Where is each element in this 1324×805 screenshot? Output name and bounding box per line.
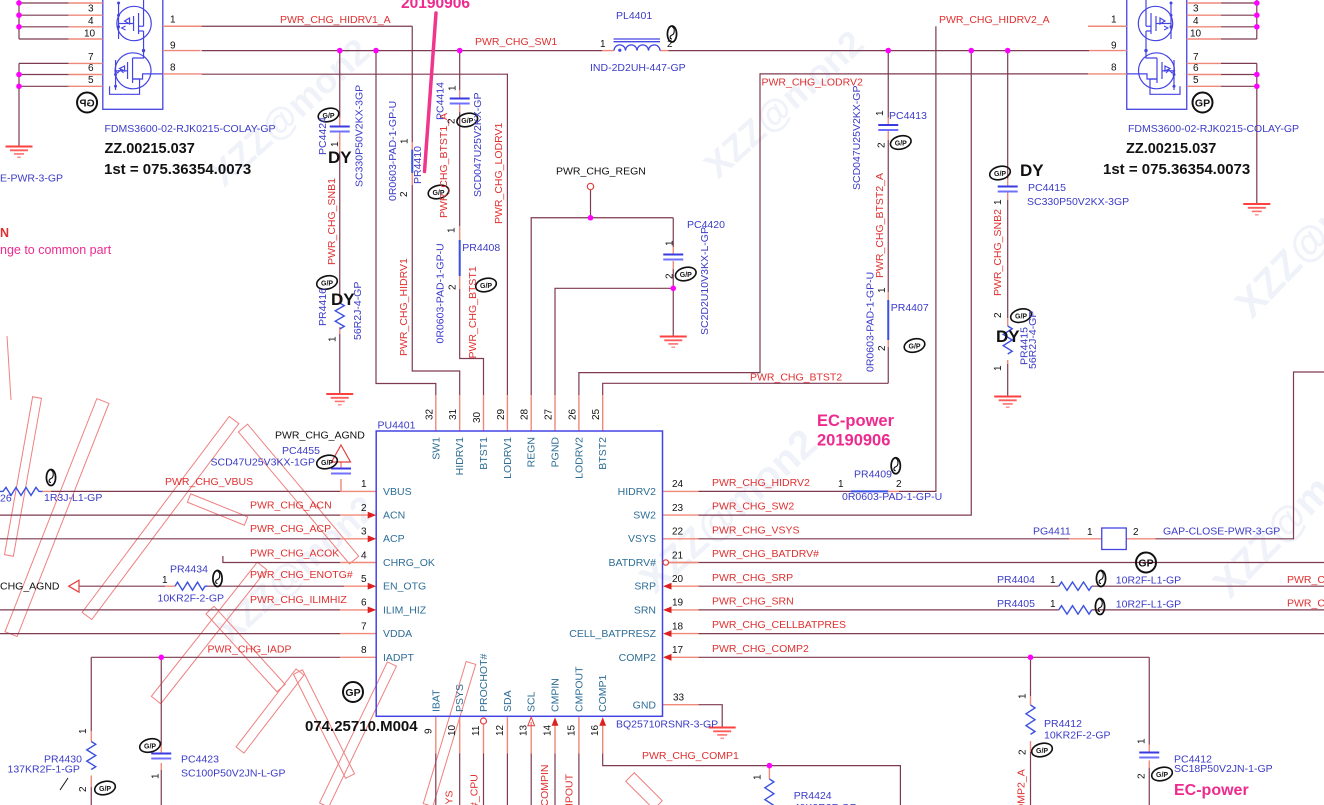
svg-text:1: 1 [447,227,458,233]
wire PC4455 stem [340,462,342,463]
svg-text:IBAT: IBAT [430,689,442,712]
wire net PWR_CHG_ILIMHIZ [0,609,340,611]
capacitor PC4414 [450,99,470,104]
svg-text:5: 5 [88,75,94,86]
wire BTST1 chain upper [459,51,461,90]
stub 1R3J resistor right pad [43,490,52,492]
svg-text:DY: DY [996,327,1020,346]
svg-text:ZZ.00215.037: ZZ.00215.037 [1126,141,1216,157]
svg-text:PWR_CHG_ILIMHIZ: PWR_CHG_ILIMHIZ [250,594,347,606]
svg-text:2: 2 [399,191,410,197]
svg-text:PWR_CHG_BTST1_A: PWR_CHG_BTST1_A [438,113,450,218]
wire right FET row pin7 [1221,62,1257,64]
svg-text:PWR_CHG_REGN: PWR_CHG_REGN [556,166,646,178]
svg-text:26: 26 [0,493,12,505]
svg-text:PC4413: PC4413 [889,110,927,122]
stub PC4415 pads [1007,179,1009,187]
capacitor PC4455 [331,469,351,474]
svg-text:VSYS: VSYS [628,533,656,545]
wire net PWR_CHG_SRP [699,585,1059,587]
svg-text:10R2F-L1-GP: 10R2F-L1-GP [1116,599,1181,611]
svg-text:GAP-CLOSE-PWR-3-GP: GAP-CLOSE-PWR-3-GP [1163,526,1280,538]
svg-text:SC330P50V2KX-3GP: SC330P50V2KX-3GP [1027,196,1129,208]
svg-text:PR4434: PR4434 [170,564,208,576]
resistor PR4409 0-ohm horizontal [851,490,889,492]
svg-text:30: 30 [472,411,483,423]
stub PR4407 pads [887,292,889,300]
svg-text:PR4416: PR4416 [317,288,329,326]
svg-text:PWR_CHG_SW1: PWR_CHG_SW1 [475,36,557,48]
svg-text:33: 33 [673,693,685,704]
stub IC right pins [663,490,699,492]
svg-text:SC100P50V2JN-L-GP: SC100P50V2JN-L-GP [181,768,285,780]
resistor PR4407 0-ohm [887,300,889,340]
wire net PWR_CHG_HIDRV1 below PR4410 to IC pin31 [412,185,459,395]
svg-text:PWR_CHG_VSYS: PWR_CHG_VSYS [712,524,800,536]
svg-text:PWR_CHG_VBUS: PWR_CHG_VBUS [165,476,253,488]
wire IC bottom pin11 [483,754,485,805]
svg-text:2: 2 [448,284,459,290]
IC bottom pin names vertical [430,654,609,713]
svg-text:CMPIN: CMPIN [550,678,562,712]
svg-text:PWR_CHG_LODRV2: PWR_CHG_LODRV2 [762,77,863,89]
svg-text:1: 1 [665,240,676,246]
wire right FET gate bus [1256,0,1258,39]
resistor PR4410 0-ohm [411,150,413,174]
red pin stubs [43,51,1156,787]
svg-text:3: 3 [361,527,367,538]
svg-text:PWR_CHG_IADP: PWR_CHG_IADP [208,644,292,656]
resistor PR4426 partial at left edge [0,487,43,495]
stub PG4411 pads [1069,538,1102,540]
svg-text:PWR_CHG_SRN: PWR_CHG_SRN [1287,598,1324,610]
svg-text:1R3J-L1-GP: 1R3J-L1-GP [44,492,102,504]
wire net PWR_CHG_IADP [91,656,340,658]
svg-text:29: 29 [496,408,507,420]
svg-text:20190906: 20190906 [401,0,470,12]
svg-text:16: 16 [590,724,601,736]
stub PR4410 pads [411,142,413,150]
svg-text:CELL_BATPRESZ: CELL_BATPRESZ [569,628,656,640]
svg-text:10KR2F-2-GP: 10KR2F-2-GP [158,593,225,605]
wire left FET row pin2 [19,2,69,4]
svg-text:IND-2D2UH-447-GP: IND-2D2UH-447-GP [590,62,686,74]
wire snubber2 PWR_CHG_SNB2 [1007,51,1009,179]
svg-text:1: 1 [448,85,459,91]
svg-text:3: 3 [88,4,94,15]
svg-text:1: 1 [170,15,176,26]
wire net PWR_CHG_BATDRV# [669,562,1324,564]
svg-text:PWR_CHG_PROCHOT#_CPU: PWR_CHG_PROCHOT#_CPU [469,774,481,805]
wire PR4412 branch [1030,657,1032,696]
svg-text:8: 8 [170,63,176,74]
svg-text:1st = 075.36354.0073: 1st = 075.36354.0073 [1103,161,1250,178]
capacitor PC4415 [998,187,1018,192]
svg-text:FDMS3600-02-RJK0215-COLAY-GP: FDMS3600-02-RJK0215-COLAY-GP [1128,123,1299,135]
svg-text:0R0603-PAD-1-GP-U: 0R0603-PAD-1-GP-U [435,243,447,343]
svg-text:PWR_CHG_HIDRV1: PWR_CHG_HIDRV1 [398,258,410,356]
svg-text:14: 14 [543,724,554,736]
svg-text:PWR_CHG_SNB2: PWR_CHG_SNB2 [992,209,1004,296]
svg-text:4: 4 [361,550,367,561]
svg-text:8: 8 [1111,63,1117,74]
svg-text:PWR_CHG_SRP: PWR_CHG_SRP [712,572,793,584]
svg-text:20: 20 [672,574,684,585]
wire net PWR_CHG_ENOTG# [79,585,165,587]
wire left FET row pin3 [19,14,69,16]
wire right FET row pin10 [1221,38,1257,40]
svg-text:4: 4 [1193,16,1199,27]
svg-text:PC4415: PC4415 [1028,182,1066,194]
ground left FET [6,147,33,158]
wire right FET row pin3 [1221,14,1257,16]
wire right FET source bus to ground [1256,63,1258,203]
wire PC4412 branch [1148,657,1150,744]
svg-text:7: 7 [1193,52,1199,63]
svg-text:27: 27 [544,408,555,420]
wire GND pin33 [699,705,723,727]
svg-text:PWR_CHG_HIDRV2_A: PWR_CHG_HIDRV2_A [939,14,1050,26]
svg-text:2: 2 [1137,773,1148,779]
svg-text:1: 1 [1018,693,1029,699]
svg-text:56R2J-4-GP: 56R2J-4-GP [352,282,364,340]
wire REGN terminal stem [590,190,592,218]
capacitor PC4420 [663,255,683,260]
arrow IC pin5 [368,583,377,590]
wire left FET row pin4 [19,26,69,28]
svg-text:BTST2: BTST2 [597,437,609,470]
svg-text:SCD047U25V2KX-GP: SCD047U25V2KX-GP [472,93,484,197]
svg-text:ZZ.00215.037: ZZ.00215.037 [105,141,195,157]
wire snubber1 PWR_CHG_SNB1 [339,51,341,118]
svg-text:PWR_CHG_ACN: PWR_CHG_ACN [250,500,332,512]
wire net PWR_CHG_CELLBATPRES [699,633,1324,635]
slash mark near PR4430 [60,778,68,790]
svg-text:6: 6 [1193,63,1199,74]
capacitor PC4412 [1139,753,1159,758]
svg-text:1: 1 [993,199,1004,205]
wire left FET row pin10 [19,38,69,40]
svg-text:10: 10 [84,29,96,40]
wire net PWR_CHG_REGN vertical to IC pin28 [531,218,673,395]
arrow IC pin13 hollow [528,717,535,726]
svg-text:ILIM_HIZ: ILIM_HIZ [383,605,427,617]
svg-text:PR4408: PR4408 [462,242,500,254]
svg-text:2: 2 [78,786,89,792]
svg-text:0R0603-PAD-1-GP-U: 0R0603-PAD-1-GP-U [842,491,942,503]
wire right FET row pin5 [1221,85,1257,87]
wire net PWR_CHG_SRN [699,609,1059,611]
watermark background texts [202,22,1324,651]
svg-text:10R2F-L1-GP: 10R2F-L1-GP [1116,575,1181,587]
svg-text:VBUS: VBUS [383,486,412,498]
svg-text:PR4404: PR4404 [997,574,1035,586]
svg-text:ACN: ACN [383,510,405,522]
wire PGND pin27 to ground node [555,288,673,395]
stub PC4420 pads [672,247,674,254]
circle IC pin11 [481,718,487,724]
svg-text:HIDRV1: HIDRV1 [454,437,466,475]
resistor PR4430 [87,742,96,770]
arrow IC pin3 [368,535,377,542]
resistor PR4434 [175,582,208,590]
capacitor PC4424 [330,127,350,132]
stub inductor PL4401 pads [602,50,613,52]
wire IC bottom pin14 [554,754,556,805]
svg-text:SCD47U25V3KX-1GP: SCD47U25V3KX-1GP [211,457,315,469]
svg-text:DY: DY [328,148,352,167]
svg-text:20190906: 20190906 [817,432,890,450]
svg-text:2: 2 [877,345,888,351]
wire left FET row pin7 [19,62,69,64]
svg-text:2: 2 [896,479,902,490]
svg-text:23: 23 [672,503,684,514]
svg-text:BQ25710RSNR-3-GP: BQ25710RSNR-3-GP [616,719,718,731]
wire PR4430 branch [90,657,92,731]
stub PC4423 pads [160,745,162,753]
svg-text:25: 25 [591,408,602,420]
wire net PWR_CHG_LODRV1 [202,74,508,395]
arrow IC pin14 [552,717,559,726]
bold black texts [104,141,1250,735]
rotated red vertical net labels [326,113,1028,805]
wire net PWR_CHG_HIDRV1_A horizontal [202,25,413,27]
wire HIDRV2 pin24 to PR4409 [699,490,851,492]
svg-text:18: 18 [672,621,684,632]
wire PR4424 branch [768,766,770,767]
svg-text:SCL: SCL [526,691,538,712]
terminal CHG_AGND left arrow [69,580,79,592]
svg-text:1: 1 [1050,575,1056,586]
svg-text:1: 1 [1050,599,1056,610]
ground PC4420 [660,337,687,348]
svg-text:32: 32 [424,408,435,420]
svg-text:N: N [0,226,9,240]
wire net PWR_CHG_COMP2 [699,656,1150,658]
svg-text:PR4405: PR4405 [997,598,1035,610]
svg-text:PG4411: PG4411 [1033,526,1071,538]
wire net PWR_CHG_BTST2 [603,383,889,395]
svg-text:12: 12 [495,724,506,736]
wire net PWR_CHG_HIDRV2_A vertical [899,26,936,491]
svg-text:EC-power: EC-power [817,412,895,430]
wire PC4420 chain [672,218,674,247]
wire IC bottom pin13 [530,754,532,805]
arrow IC pin18 [663,630,672,637]
svg-text:PWR_CHG_ACOK: PWR_CHG_ACOK [250,548,339,560]
arrow IC pin6 [368,607,377,614]
svg-text:PL4401: PL4401 [616,10,652,22]
arrow IC pin20 [663,583,672,590]
svg-text:1: 1 [1111,15,1117,26]
svg-text:SW2: SW2 [633,510,656,522]
svg-text:PWR_CHG_BTST2: PWR_CHG_BTST2 [750,372,842,384]
svg-text:1: 1 [151,773,162,779]
black labels [0,166,646,593]
svg-text:E-PWR-3-GP: E-PWR-3-GP [0,173,63,185]
svg-text:PWR_CHG_COMP1: PWR_CHG_COMP1 [642,750,739,762]
svg-text:19: 19 [672,598,684,609]
svg-text:9: 9 [423,728,434,734]
resistor PR4408 0-ohm [459,240,461,276]
svg-text:GND: GND [633,700,657,712]
resistor PR4405 [1059,606,1092,614]
svg-text:LODRV1: LODRV1 [502,437,514,479]
rotated small pin digit labels [78,85,1148,792]
capacitor PC4413 [878,125,898,130]
GP marker IC [343,682,363,702]
stub PC4424 pads [339,118,341,127]
svg-text:21: 21 [672,550,684,561]
wire left FET row pin6 [19,74,69,76]
stub PR4434 pads [165,585,175,587]
svg-text:1: 1 [1137,738,1148,744]
svg-text:CMPOUT: CMPOUT [573,666,585,712]
svg-text:2: 2 [1133,527,1139,538]
svg-text:PWR_CHG_HIDRV1_A: PWR_CHG_HIDRV1_A [280,14,391,26]
wire net PWR_CHG_SW2 from inductor to right FET pin9 [669,50,1090,52]
ground right FET [1243,204,1270,215]
stub PC4413 pads [887,118,889,125]
wire right FET row pin2 [1221,2,1257,4]
svg-text:2: 2 [361,503,367,514]
svg-text:9: 9 [170,41,176,52]
wire PC4423 branch [160,657,162,745]
svg-text:1: 1 [993,365,1004,371]
wire net PWR_CHG_COMP1 [603,754,901,805]
wire right FET row pin4 [1221,26,1257,28]
circle IC pin21 [663,560,668,565]
svg-text:PR4412: PR4412 [1044,718,1082,730]
IC top pin names vertical [430,437,609,479]
svg-text:PWR_CHG_ACP: PWR_CHG_ACP [250,523,331,535]
svg-text:HIDRV2: HIDRV2 [618,486,656,498]
svg-text:SC330P50V2KX-3GP: SC330P50V2KX-3GP [354,85,366,187]
resistor PR4412 [1026,705,1035,734]
wire net PWR_CHG_ACP [0,538,340,540]
svg-text:5: 5 [361,574,367,585]
svg-text:137KR2F-1-GP: 137KR2F-1-GP [8,764,80,776]
rotated blue vertical part labels [317,82,1039,372]
svg-text:PSYS: PSYS [454,684,466,712]
GP marker PG4411 [1136,553,1156,573]
wire BTST2_A chain vertical [887,51,889,118]
svg-text:3: 3 [1193,4,1199,15]
wire left FET gate bus top [18,0,20,39]
wire left FET row pin5 [19,85,69,87]
wire right FET row pin6 [1221,74,1257,76]
arrow IC pin17 [663,654,672,661]
svg-text:31: 31 [448,408,459,420]
svg-text:LODRV2: LODRV2 [573,437,585,479]
ground IC pin33 [709,728,736,739]
svg-text:2: 2 [993,312,1004,318]
svg-text:PR4409: PR4409 [854,469,892,481]
svg-text:1: 1 [78,728,89,734]
svg-text:2: 2 [665,273,676,279]
svg-text:1: 1 [328,336,339,342]
svg-text:2: 2 [667,39,673,50]
wire net PWR_CHG_BTST1 below PR4408 to IC pin30 [460,289,484,395]
svg-text:PC4424: PC4424 [317,117,329,155]
ground snubber2 [994,397,1021,408]
wire IC bottom pin12 [506,754,508,805]
svg-text:FDMS3600-02-RJK0215-COLAY-GP: FDMS3600-02-RJK0215-COLAY-GP [105,123,276,135]
revision change-mark strokes (hollow red) [5,336,663,805]
svg-text:REGN: REGN [526,437,538,467]
svg-text:8: 8 [361,645,367,656]
IC pin names [383,486,657,712]
terminal PWR_CHG_AGND up arrow [332,445,351,462]
svg-text:PWR_CHG_HIDRV2: PWR_CHG_HIDRV2 [712,477,810,489]
svg-text:SCD047U25V2KX-GP: SCD047U25V2KX-GP [851,86,863,190]
svg-text:0R0603-PAD-1-GP-U: 0R0603-PAD-1-GP-U [387,101,399,201]
svg-text:PWR_CHG_BTST1: PWR_CHG_BTST1 [467,266,479,358]
svg-text:1: 1 [600,39,606,50]
wire SW1 to IC pin32 [376,51,436,395]
svg-text:1: 1 [361,479,367,490]
svg-text:4: 4 [88,16,94,27]
wire net PWR_CHG_LODRV2 [579,74,1088,395]
svg-text:VDDA: VDDA [383,628,412,640]
wire net PWR_CHG_ACN [0,514,340,516]
wire net PWR_CHG_VSYS [699,538,1070,540]
svg-text:SW1: SW1 [430,437,442,460]
stub IC top pins [435,395,437,431]
svg-text:PWR_CHG_SRN: PWR_CHG_SRN [712,596,794,608]
svg-text:SRP: SRP [634,581,656,593]
svg-text:7: 7 [361,621,367,632]
svg-text:5: 5 [1193,75,1199,86]
svg-text:PC4414: PC4414 [435,82,447,120]
IC bottom pin numbers rotated [423,724,601,736]
svg-text:PGND: PGND [550,437,562,468]
svg-text:1: 1 [838,479,844,490]
pink highlight leader stroke [425,13,437,172]
wire SW2 vertical to IC pin23 [699,51,972,515]
stub PR4409 pads [888,490,899,492]
transistor pair PQ right (FDMS3600) [1088,0,1221,113]
svg-text:0R0603-PAD-1-GP-U: 0R0603-PAD-1-GP-U [865,272,877,372]
gap-closer PG4411 box [1102,528,1127,550]
svg-text:PC4423: PC4423 [181,754,219,766]
resistor PR4415 [1003,326,1012,354]
svg-text:6: 6 [88,63,94,74]
svg-text:PWR_CHG_ENOTG#: PWR_CHG_ENOTG# [250,569,353,581]
svg-text:PWR_CHG_SW2: PWR_CHG_SW2 [712,501,794,513]
inductor PL4401 [614,39,661,51]
stub IC bottom pins [435,717,437,753]
wire net PWR_CHG_HIDRV1_A vertical to PR4410 [411,26,413,142]
svg-text:2: 2 [1018,749,1029,755]
svg-text:EN_OTG: EN_OTG [383,581,426,593]
stub PC4414 pads [459,90,461,98]
svg-text:PR4407: PR4407 [891,302,929,314]
svg-text:DY: DY [1020,161,1044,180]
arrow IC pin16 [599,717,606,726]
svg-text:074.25710.M004: 074.25710.M004 [305,718,418,735]
svg-text:1: 1 [400,138,411,144]
svg-text:SC18P50V2JN-1-GP: SC18P50V2JN-1-GP [1174,763,1273,775]
svg-text:PWR_CHG_CELLBATPRES: PWR_CHG_CELLBATPRES [712,619,846,631]
svg-text:1: 1 [162,575,168,586]
svg-text:BATDRV#: BATDRV# [609,557,657,569]
transistor pair PQ left (FDMS3600 mirrored) [69,0,202,113]
svg-text:28: 28 [520,408,531,420]
arrow IC pin19 [663,607,672,614]
svg-text:1: 1 [875,110,886,116]
svg-text:IADPT: IADPT [383,652,415,664]
